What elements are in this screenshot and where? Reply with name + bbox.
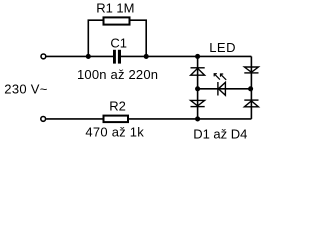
svg-text:C1: C1	[110, 35, 127, 50]
svg-text:LED: LED	[209, 40, 236, 55]
svg-text:D1 až D4: D1 až D4	[193, 127, 247, 142]
svg-text:470 až 1k: 470 až 1k	[85, 125, 144, 140]
svg-text:R2: R2	[109, 98, 126, 113]
svg-text:230 V~: 230 V~	[4, 82, 47, 97]
svg-text:R1 1M: R1 1M	[96, 1, 134, 16]
svg-text:100n až 220n: 100n až 220n	[77, 67, 158, 82]
